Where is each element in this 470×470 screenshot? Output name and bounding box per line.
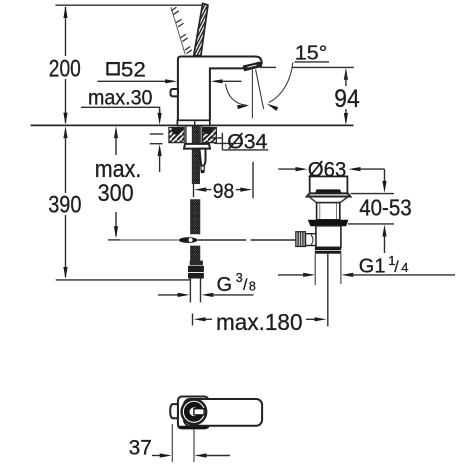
svg-text:max.: max. bbox=[95, 156, 142, 183]
label G1 1/4 bbox=[359, 253, 409, 277]
bottom view: spout tube bbox=[184, 399, 262, 426]
dim 37 extension line left bbox=[171, 424, 173, 462]
max300 bottom boundary tick bbox=[108, 239, 120, 241]
svg-text:200: 200 bbox=[49, 56, 81, 83]
dim 98 bbox=[194, 162, 254, 199]
neck cylinder bbox=[317, 203, 340, 220]
label G3/8 bbox=[217, 271, 256, 296]
tail centre line bbox=[327, 254, 329, 327]
lower body bbox=[316, 226, 341, 248]
svg-text:G: G bbox=[217, 274, 233, 296]
dim 94 top extension line segment A bbox=[260, 66, 276, 68]
max.30 arrows at countertop bbox=[158, 110, 162, 172]
bottom view: outer circle bbox=[182, 400, 207, 425]
pop-up rod right segment B bbox=[251, 239, 297, 241]
svg-text:3: 3 bbox=[236, 271, 243, 285]
dim G3/8 bbox=[158, 293, 254, 297]
top reference line bbox=[55, 4, 203, 6]
countertop bottom edge right line bbox=[214, 142, 243, 144]
thread band upper bbox=[315, 247, 341, 250]
label square 52 bbox=[107, 58, 145, 82]
lever handle (hatched) bbox=[194, 3, 208, 55]
side knob bbox=[170, 89, 178, 96]
dim max.180 bbox=[193, 314, 327, 326]
svg-text:Ø63: Ø63 bbox=[308, 159, 347, 182]
pop-up rod right segment A bbox=[198, 239, 246, 241]
dim max.300 vertical line bbox=[114, 126, 118, 238]
max.30 leader underline bbox=[81, 107, 160, 113]
pop-up rod left segment bbox=[109, 239, 179, 241]
shank tube edges bbox=[185, 126, 187, 144]
hose nipple bbox=[199, 149, 205, 166]
mounting clamp right (hatched) bbox=[203, 128, 217, 143]
svg-text:37: 37 bbox=[129, 436, 152, 460]
dim 94 top extension line segment B bbox=[292, 66, 354, 68]
dim 40-53 vertical bbox=[348, 169, 394, 253]
nipple nub bbox=[201, 171, 205, 174]
lever phantom line bbox=[171, 7, 185, 55]
nipple tube bbox=[201, 166, 204, 171]
svg-text:4: 4 bbox=[401, 260, 408, 275]
G3/8 connector nut upper bbox=[190, 261, 203, 266]
G3/8 connector nut lower bbox=[188, 273, 204, 279]
15deg big arc bbox=[266, 63, 293, 111]
15deg tilted axis line bbox=[256, 70, 264, 109]
thread band lower bbox=[315, 251, 341, 254]
base plate bbox=[177, 120, 209, 125]
mounting nut bbox=[184, 144, 210, 149]
countertop bottom edge left line A bbox=[150, 133, 164, 135]
dim 52 line right bbox=[211, 79, 242, 83]
svg-text:8: 8 bbox=[249, 279, 256, 293]
G3/8 connector nut middle bbox=[188, 266, 204, 272]
dim 37 bbox=[152, 453, 230, 457]
supply hose upper segment bbox=[191, 200, 200, 234]
svg-text:max.180: max.180 bbox=[216, 309, 303, 335]
faucet body outline bbox=[178, 57, 262, 121]
label diameter 34 bbox=[212, 130, 269, 154]
dim 52 line left bbox=[97, 79, 177, 83]
tube end bbox=[190, 279, 200, 303]
svg-text:max.30: max.30 bbox=[88, 87, 153, 110]
bottom view: slot bar bbox=[194, 409, 204, 415]
svg-text:Ø34: Ø34 bbox=[227, 130, 267, 154]
15deg small arc bbox=[226, 84, 250, 109]
faucet spout underside and inner edge bbox=[210, 68, 246, 120]
15deg underline bbox=[295, 61, 330, 63]
aerator bbox=[244, 63, 261, 70]
mounting clamp left (hatched) bbox=[169, 128, 184, 143]
countertop bottom edge left line B bbox=[150, 143, 163, 145]
rod clevis bbox=[178, 237, 198, 243]
svg-text:94: 94 bbox=[334, 85, 360, 113]
flange bbox=[307, 193, 351, 196]
15deg vertical axis line bbox=[251, 70, 253, 119]
rubber washer (dark) bbox=[308, 220, 349, 226]
plug dark cap band bbox=[315, 189, 342, 193]
dim G1 1/4 bbox=[278, 273, 455, 277]
supply hose lower segment bbox=[191, 246, 200, 261]
dim 37 extension line right (faucet axis) bbox=[193, 429, 195, 462]
lever phantom dashes bbox=[172, 8, 192, 54]
thread extension line left bbox=[314, 254, 316, 285]
svg-text:52: 52 bbox=[121, 58, 146, 82]
pop-up waste: plug bbox=[310, 176, 348, 193]
countertop line bbox=[31, 124, 354, 126]
skirt bbox=[309, 197, 349, 204]
bottom view: block shadow edges bbox=[179, 421, 208, 429]
svg-text:300: 300 bbox=[98, 180, 134, 207]
dim 200 vertical line bbox=[63, 6, 67, 125]
svg-text:390: 390 bbox=[48, 192, 81, 219]
svg-text:/: / bbox=[243, 277, 248, 294]
svg-text:40-53: 40-53 bbox=[359, 194, 412, 220]
dim diameter 63 bbox=[278, 167, 384, 171]
thread extension line right bbox=[340, 254, 342, 284]
bottom view: body block bbox=[178, 397, 209, 429]
svg-text:/: / bbox=[394, 259, 399, 276]
svg-text:98: 98 bbox=[213, 180, 235, 203]
bottom view: dark donut bbox=[187, 405, 201, 419]
bottom view: left tab bbox=[170, 404, 178, 418]
rod entry knurled connector bbox=[296, 232, 316, 247]
dim 390 vertical line bbox=[63, 126, 67, 279]
390 bottom boundary line bbox=[56, 279, 190, 281]
threaded stud (cross-hatch) bbox=[192, 126, 199, 184]
dim 94 vertical line bbox=[344, 68, 348, 125]
